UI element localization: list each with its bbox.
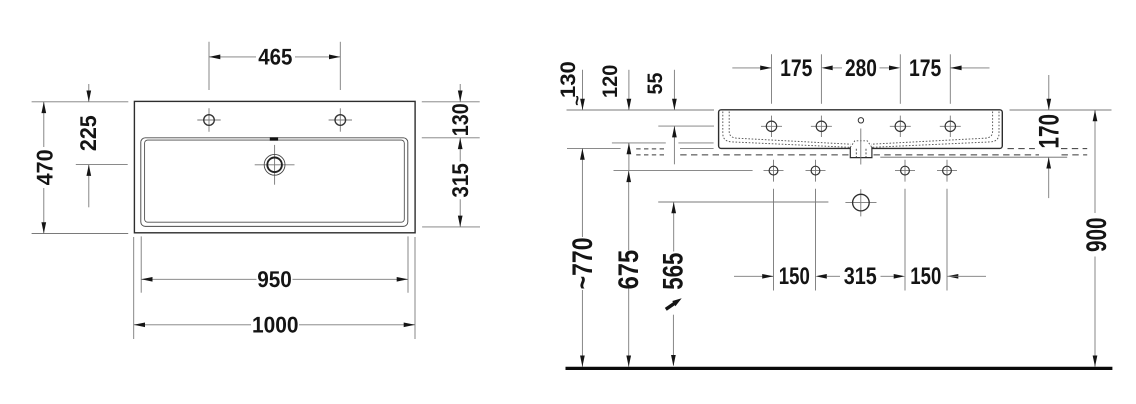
dimension 120 (elevation) [599,65,631,171]
svg-text:55: 55 [644,72,667,94]
svg-text:170: 170 [1034,114,1066,149]
dimension 225 [75,84,128,207]
svg-text:280: 280 [845,55,877,82]
overflow hole front [858,118,863,123]
basin interior hidden contour left [723,112,851,148]
dashed lines right [1008,148,1088,150]
dimension 55 (elevation) [644,70,677,165]
svg-text:315: 315 [844,263,877,290]
reference line 170 level [880,156,1067,158]
faucet hole 4 [940,116,961,137]
fixing hole 1 [764,160,784,291]
dimension ~770 [567,148,599,366]
drain trap box [850,147,872,158]
long dashed line under basin [680,154,1087,156]
basin rim inner line [145,140,405,222]
dimension 900 [1081,110,1113,367]
svg-text:565: 565 [658,253,690,290]
svg-text:130: 130 [557,61,580,98]
faucet hole 3 [890,116,911,137]
svg-text:950: 950 [257,266,292,292]
dimension 175 left [732,54,821,104]
svg-text:470: 470 [31,149,57,185]
dimension 170 [1034,75,1066,198]
dimension 315 (plan right) [422,138,480,227]
svg-text:465: 465 [258,43,292,69]
svg-text:315: 315 [447,163,473,198]
faucet hole 1 [761,116,782,137]
drain [255,145,295,185]
dimension 315 (elevation) [816,263,906,290]
floor line [566,367,1113,370]
fixing hole 2 [806,160,826,291]
svg-text:150: 150 [910,263,941,290]
svg-text:120: 120 [599,65,622,98]
dimension 950 [141,236,408,292]
svg-text:130: 130 [447,103,473,136]
overflow slot [270,137,278,140]
faucet hole 2 [811,116,832,137]
washbasin outer outline [134,101,415,232]
dimension 175 right [900,54,989,104]
dimension 130 (elevation) [557,61,587,110]
fixing hole 3 [895,160,915,291]
reference line siphon level [658,201,828,203]
reference line basin top [567,109,1112,111]
svg-text:~770: ~770 [567,237,599,289]
faucet hole left [197,108,220,131]
svg-text:1000: 1000 [252,311,299,337]
dimension 470 [31,102,128,234]
dimension 675 [613,171,645,367]
svg-text:~: ~ [567,95,587,106]
dimension 130 (plan right) [422,84,480,138]
dimension 1000 [134,237,415,339]
reference line basin bottom [567,147,714,149]
basin rim outer line [141,138,408,227]
siphon outlet circle [845,194,876,211]
drain recess hidden contour [850,141,872,148]
dimension 150 left [734,263,810,290]
reference line 120 level [612,142,714,144]
center axis line [860,129,862,217]
fixing hole 4 [937,160,957,291]
faucet hole right [329,108,352,131]
dimension 150 right [910,263,986,290]
washbasin profile outline [719,110,1003,149]
dimension 565 [658,202,690,366]
reference line fixing holes [614,170,753,172]
dimension 280 [821,55,900,82]
basin interior hidden contour right [871,112,999,148]
dimension 465 [209,42,340,90]
svg-text:175: 175 [780,55,812,82]
svg-text:225: 225 [75,115,101,151]
svg-text:675: 675 [613,250,645,290]
svg-text:900: 900 [1081,218,1113,253]
reference line faucet level [658,125,714,127]
svg-text:150: 150 [779,263,810,290]
long dashed lines left [636,149,665,155]
svg-text:175: 175 [909,55,941,82]
